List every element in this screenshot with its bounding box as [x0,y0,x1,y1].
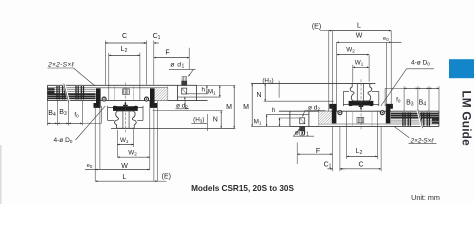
svg-text:M: M [243,104,249,111]
svg-text:B4: B4 [419,99,427,107]
svg-text:Unit: mm: Unit: mm [411,193,440,202]
svg-text:e0: e0 [87,163,93,169]
svg-text:LM Guide: LM Guide [460,91,474,147]
svg-text:C1: C1 [153,33,161,41]
svg-text:f0: f0 [396,97,401,104]
svg-text:F: F [316,148,320,155]
svg-text:ø d1: ø d1 [170,61,185,69]
svg-text:W2: W2 [346,46,355,53]
svg-text:e0: e0 [383,36,389,42]
svg-text:W2: W2 [128,149,137,156]
svg-text:B3: B3 [59,109,67,117]
svg-text:B4: B4 [48,110,56,118]
svg-text:N: N [213,117,218,124]
svg-text:ø d2: ø d2 [176,103,188,111]
svg-text:M: M [226,104,232,111]
svg-text:W1: W1 [355,60,364,67]
left diagram geometry [47,41,235,182]
svg-text:C1: C1 [324,162,332,170]
svg-text:W: W [121,163,128,170]
svg-text:(H3): (H3) [193,117,204,124]
svg-text:Models CSR15, 20S to 30S: Models CSR15, 20S to 30S [191,184,294,193]
svg-text:B3: B3 [406,99,414,107]
svg-text:L: L [122,174,126,181]
svg-text:ø d2: ø d2 [308,105,320,113]
svg-text:(H3): (H3) [262,78,273,85]
svg-text:2×2-S×ℓ: 2×2-S×ℓ [47,62,74,69]
svg-text:(E): (E) [312,24,321,31]
svg-text:4-ø D0: 4-ø D0 [411,59,430,67]
svg-text:4-ø D0: 4-ø D0 [54,137,73,145]
svg-text:f0: f0 [74,112,79,119]
svg-text:C: C [122,33,127,40]
svg-text:h: h [201,87,205,94]
svg-text:C: C [358,162,363,169]
svg-text:M1: M1 [254,119,262,126]
svg-text:F: F [165,50,169,57]
svg-text:L2: L2 [356,148,363,156]
svg-text:(E): (E) [162,174,171,181]
blue tab [449,59,474,78]
svg-text:W1: W1 [120,137,129,144]
svg-text:h: h [272,107,276,114]
svg-text:L2: L2 [121,46,128,54]
svg-text:M1: M1 [208,89,216,96]
left edge artifact [0,145,2,204]
svg-text:L: L [357,22,361,29]
svg-text:N: N [256,92,261,99]
right diagram geometry (180 deg rotated) [251,31,439,172]
svg-text:W: W [356,33,363,40]
